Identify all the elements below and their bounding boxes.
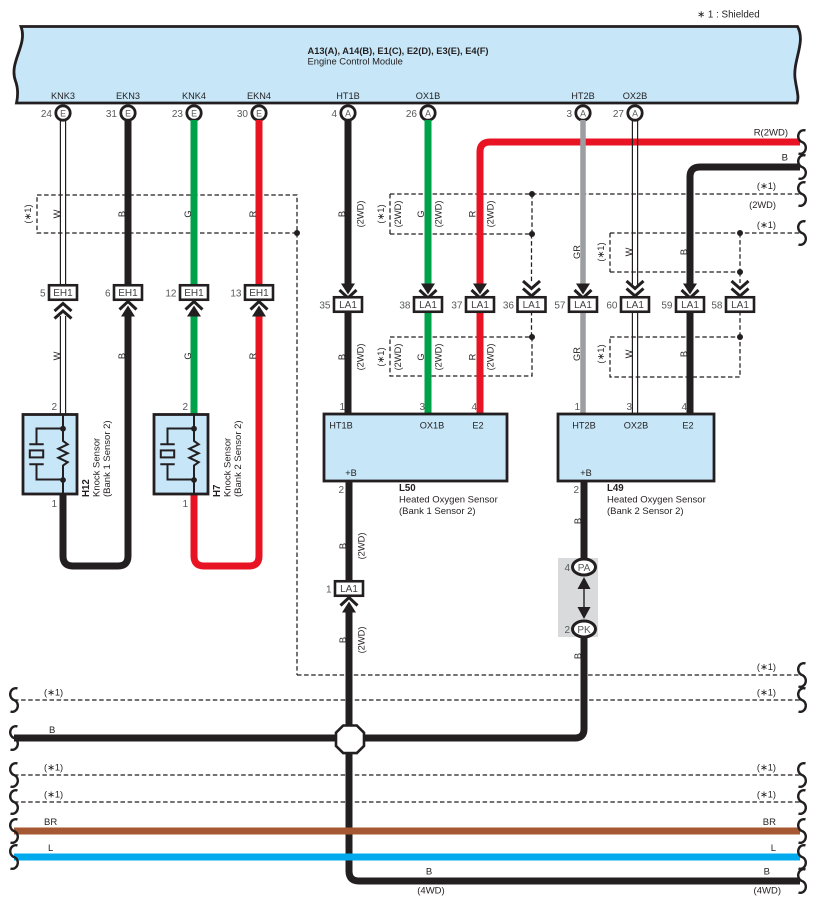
svg-text:OX1B: OX1B bbox=[420, 421, 445, 431]
svg-text:1: 1 bbox=[182, 499, 188, 510]
svg-text:23: 23 bbox=[172, 109, 184, 120]
connector EH1 pin 13 bbox=[245, 285, 273, 300]
svg-text:L: L bbox=[771, 843, 776, 854]
svg-text:+B: +B bbox=[580, 468, 592, 478]
svg-text:W: W bbox=[52, 209, 62, 218]
svg-text:Engine Control Module: Engine Control Module bbox=[308, 56, 403, 67]
knock sensor H12 (Bank 1 Sensor 2) bbox=[23, 415, 77, 495]
svg-text:59: 59 bbox=[661, 300, 673, 311]
wire OX2B white W (thin double) ECM to LA1 60 bbox=[632, 121, 637, 285]
heated oxygen sensor L50 (Bank 1 Sensor 2) bbox=[324, 414, 507, 481]
svg-text:31: 31 bbox=[106, 109, 118, 120]
wire KNK3 shielded white W (thin double) ECM to EH1 bbox=[60, 121, 65, 286]
BR brown bus wire y=830 bbox=[14, 828, 800, 835]
connector LA1 pin 36 bbox=[523, 281, 540, 289]
svg-text:B: B bbox=[426, 867, 432, 878]
svg-text:27: 27 bbox=[613, 109, 625, 120]
connector EH1 pin 5 bbox=[49, 285, 77, 300]
dashed drain from LA1 58 to lower shield box bbox=[739, 311, 741, 337]
svg-text:(∗1): (∗1) bbox=[757, 790, 776, 800]
dashed shield drain wire from knock shield down to (*1) line bbox=[296, 233, 298, 675]
wire B EH1-6 down and left to H12 pin1 bbox=[63, 316, 128, 566]
svg-text:PK: PK bbox=[577, 625, 591, 636]
shield box (*1) around knock sensor wires bbox=[37, 195, 297, 233]
connector LA1 pin 60 bbox=[627, 281, 644, 289]
svg-text:(∗1): (∗1) bbox=[757, 662, 776, 672]
svg-text:GR: GR bbox=[572, 245, 582, 259]
dot top-right lower L50 shield box bbox=[529, 334, 535, 340]
svg-text:E: E bbox=[191, 109, 197, 119]
wire B from right edge to LA1 59 bbox=[690, 167, 800, 284]
wire KNK4 green G ECM to EH1 bbox=[191, 120, 198, 285]
dashed drain from LA1 36 to lower shield box bbox=[531, 311, 533, 337]
svg-text:2: 2 bbox=[564, 625, 570, 636]
dashed (*1) line y=775 full width bbox=[14, 774, 800, 776]
connector PA pin 4 (oval) bbox=[573, 559, 596, 575]
dashed (*1) line y=675 from knock shield drain bbox=[297, 674, 800, 676]
svg-text:4: 4 bbox=[331, 109, 337, 120]
svg-text:GR: GR bbox=[572, 347, 582, 361]
ground bus B wire y=738 bbox=[14, 735, 336, 742]
wire GR LA1-57 to L49 HT2B bbox=[580, 311, 586, 414]
svg-text:B: B bbox=[337, 354, 347, 360]
junction octagon bbox=[336, 726, 364, 754]
svg-text:(∗1): (∗1) bbox=[757, 688, 776, 698]
wire B LA1-59 to L49 E2 bbox=[687, 311, 694, 414]
svg-text:(∗1): (∗1) bbox=[44, 790, 63, 800]
dashed (*1) line y=802 full width bbox=[14, 801, 800, 803]
svg-text:Knock Sensor: Knock Sensor bbox=[223, 438, 234, 497]
svg-text:HT1B: HT1B bbox=[329, 421, 353, 431]
svg-text:2: 2 bbox=[182, 402, 188, 413]
svg-text:30: 30 bbox=[237, 109, 249, 120]
svg-text:E: E bbox=[60, 109, 66, 119]
svg-text:3: 3 bbox=[566, 109, 572, 120]
svg-text:(∗1): (∗1) bbox=[757, 220, 776, 230]
svg-text:KNK4: KNK4 bbox=[182, 91, 206, 101]
svg-text:B: B bbox=[782, 153, 788, 164]
svg-text:HT1B: HT1B bbox=[336, 91, 360, 101]
svg-text:4: 4 bbox=[471, 402, 477, 413]
svg-text:∗ 1 : Shielded: ∗ 1 : Shielded bbox=[697, 10, 760, 21]
wire EKN3 black B ECM to EH1 bbox=[125, 120, 132, 285]
svg-text:13: 13 bbox=[230, 288, 242, 299]
pin 27 (A) OX2B bbox=[628, 106, 642, 120]
svg-text:G: G bbox=[416, 210, 426, 217]
svg-text:B: B bbox=[679, 249, 689, 255]
svg-text:BR: BR bbox=[763, 817, 776, 828]
dashed (*1) line y=700 full width bbox=[14, 699, 800, 701]
svg-text:LA1: LA1 bbox=[419, 300, 437, 311]
svg-text:(2WD): (2WD) bbox=[749, 200, 776, 210]
svg-text:3: 3 bbox=[626, 402, 632, 413]
svg-text:W: W bbox=[624, 247, 634, 256]
svg-text:LA1: LA1 bbox=[731, 300, 749, 311]
L blue bus wire y=857 bbox=[14, 854, 800, 861]
dashed shield drain to LA1 pin36 bbox=[531, 234, 533, 283]
svg-text:12: 12 bbox=[165, 288, 177, 299]
svg-text:(2WD): (2WD) bbox=[357, 627, 367, 654]
svg-text:Heated Oxygen Sensor: Heated Oxygen Sensor bbox=[399, 495, 498, 506]
svg-text:(Bank 2 Sensor 2): (Bank 2 Sensor 2) bbox=[607, 506, 684, 517]
svg-text:B: B bbox=[337, 211, 347, 217]
svg-text:EKN4: EKN4 bbox=[247, 91, 271, 101]
svg-text:EH1: EH1 bbox=[53, 288, 73, 299]
connector LA1 pin 35 bbox=[341, 284, 355, 295]
svg-text:LA1: LA1 bbox=[523, 300, 541, 311]
pin 24 (E) KNK3 bbox=[56, 106, 70, 120]
shield junction dot at (297,233) bbox=[294, 230, 300, 236]
joint arrows between PA and PK bbox=[583, 589, 585, 607]
svg-text:1: 1 bbox=[51, 499, 57, 510]
svg-text:LA1: LA1 bbox=[626, 300, 644, 311]
svg-text:R(2WD): R(2WD) bbox=[754, 128, 788, 139]
dashed shield drain to LA1 pin58 bbox=[739, 272, 741, 283]
lower shield box (*1)(2WD) L50 side bbox=[390, 337, 532, 376]
wire HT2B gray GR ECM to LA1 57 bbox=[580, 120, 586, 284]
svg-text:R: R bbox=[248, 352, 258, 359]
svg-text:H7: H7 bbox=[212, 485, 223, 497]
svg-text:HT2B: HT2B bbox=[572, 421, 596, 431]
svg-text:Knock Sensor: Knock Sensor bbox=[92, 438, 103, 497]
dot top-right lower L49 shield box bbox=[737, 334, 743, 340]
svg-text:A: A bbox=[345, 109, 351, 119]
svg-text:58: 58 bbox=[711, 300, 723, 311]
svg-text:(2WD): (2WD) bbox=[486, 201, 496, 228]
svg-text:(2WD): (2WD) bbox=[356, 201, 366, 228]
svg-text:B: B bbox=[117, 353, 127, 359]
connector EH1 pin 12 bbox=[180, 285, 208, 300]
svg-text:B: B bbox=[49, 725, 55, 736]
dashed (*1) line y=233 bbox=[610, 232, 800, 234]
svg-text:A: A bbox=[632, 109, 638, 119]
knock sensor H7 (Bank 2 Sensor 2) bbox=[154, 415, 208, 495]
svg-text:B: B bbox=[764, 867, 770, 878]
svg-text:LA1: LA1 bbox=[471, 300, 489, 311]
svg-text:KNK3: KNK3 bbox=[51, 91, 75, 101]
svg-text:36: 36 bbox=[503, 300, 515, 311]
svg-text:(2WD): (2WD) bbox=[434, 201, 444, 228]
svg-text:A: A bbox=[425, 109, 431, 119]
svg-text:(2WD): (2WD) bbox=[393, 344, 403, 371]
svg-text:Heated Oxygen Sensor: Heated Oxygen Sensor bbox=[607, 495, 706, 506]
svg-text:LA1: LA1 bbox=[681, 300, 699, 311]
pin 3 (A) HT2B bbox=[576, 106, 590, 120]
wire G(2WD) LA1-38 to L50 OX1B bbox=[425, 311, 432, 414]
svg-text:B: B bbox=[573, 518, 583, 524]
svg-text:4: 4 bbox=[564, 563, 570, 574]
svg-text:H12: H12 bbox=[81, 479, 92, 497]
svg-text:(∗1): (∗1) bbox=[757, 181, 776, 191]
pin 4 (A) HT1B bbox=[341, 106, 355, 120]
svg-text:B: B bbox=[338, 543, 348, 549]
wire HT1B black B(2WD) ECM to LA1 35 bbox=[345, 120, 352, 284]
svg-text:B: B bbox=[338, 637, 348, 643]
svg-text:L50: L50 bbox=[399, 483, 416, 494]
svg-text:24: 24 bbox=[41, 109, 53, 120]
svg-text:G: G bbox=[183, 352, 193, 359]
svg-text:W: W bbox=[624, 349, 634, 358]
svg-text:E2: E2 bbox=[472, 421, 483, 431]
svg-text:35: 35 bbox=[319, 300, 331, 311]
connector EH1 pin 6 bbox=[114, 285, 142, 300]
lower shield box (*1) L49 side bbox=[610, 337, 740, 377]
svg-text:38: 38 bbox=[399, 300, 411, 311]
svg-text:6: 6 bbox=[105, 288, 111, 299]
svg-text:2: 2 bbox=[338, 485, 344, 496]
connector LA1 pin 1 bbox=[335, 581, 363, 596]
svg-text:2: 2 bbox=[51, 402, 57, 413]
shield box dots at x=740 bbox=[737, 230, 743, 236]
svg-text:5: 5 bbox=[40, 288, 46, 299]
svg-text:BR: BR bbox=[44, 817, 57, 828]
svg-text:60: 60 bbox=[606, 300, 618, 311]
wire B(2WD) from L50 +B to LA1 pin1 bbox=[346, 481, 353, 581]
svg-text:W: W bbox=[52, 351, 62, 360]
connector LA1 pin 59 bbox=[683, 284, 697, 295]
wire R(2WD) from right edge to LA1 37 bbox=[480, 142, 800, 284]
svg-text:57: 57 bbox=[554, 300, 566, 311]
svg-text:(Bank 1 Sensor 2): (Bank 1 Sensor 2) bbox=[399, 506, 476, 517]
wire R EH1-13 down and left to H7 pin1 bbox=[194, 316, 259, 566]
svg-text:LA1: LA1 bbox=[340, 584, 358, 595]
svg-text:(∗1): (∗1) bbox=[757, 763, 776, 773]
wire B from PK down to ground bus bbox=[364, 637, 584, 738]
svg-text:EKN3: EKN3 bbox=[116, 91, 140, 101]
svg-text:OX1B: OX1B bbox=[416, 91, 441, 101]
shield box (*1)(2WD) around L50 wires with dashed line to right edge bbox=[390, 194, 532, 234]
svg-text:B: B bbox=[573, 653, 583, 659]
svg-text:1: 1 bbox=[326, 584, 332, 595]
heated oxygen sensor L49 (Bank 2 Sensor 2) bbox=[558, 414, 714, 481]
svg-text:EH1: EH1 bbox=[118, 288, 138, 299]
svg-text:OX2B: OX2B bbox=[623, 91, 648, 101]
svg-text:(∗1): (∗1) bbox=[596, 344, 606, 363]
svg-text:(∗1): (∗1) bbox=[596, 242, 606, 261]
svg-text:3: 3 bbox=[419, 402, 425, 413]
svg-text:(∗1): (∗1) bbox=[44, 688, 63, 698]
pin 26 (A) OX1B bbox=[421, 106, 435, 120]
svg-text:37: 37 bbox=[451, 300, 463, 311]
pin 30 (E) EKN4 bbox=[252, 106, 266, 120]
svg-text:R: R bbox=[248, 210, 258, 217]
svg-text:1: 1 bbox=[574, 402, 580, 413]
svg-text:(∗1): (∗1) bbox=[376, 204, 386, 223]
wire W EH1-5 to H12 pin2 (thin double) bbox=[60, 316, 65, 415]
svg-text:L: L bbox=[48, 843, 53, 854]
svg-text:R: R bbox=[468, 210, 478, 217]
svg-text:1: 1 bbox=[339, 402, 345, 413]
svg-text:E: E bbox=[256, 109, 262, 119]
svg-text:B: B bbox=[679, 351, 689, 357]
connector PK pin 2 (oval) bbox=[573, 621, 596, 637]
svg-text:B: B bbox=[117, 211, 127, 217]
svg-text:E: E bbox=[125, 109, 131, 119]
wire G EH1-12 to H7 pin2 bbox=[191, 316, 198, 415]
svg-text:A13(A), A14(B), E1(C), E2(D),: A13(A), A14(B), E1(C), E2(D), E3(E), E4(… bbox=[308, 46, 489, 56]
gray background of PA-PK joint bbox=[558, 558, 598, 637]
svg-text:(2WD): (2WD) bbox=[393, 201, 403, 228]
svg-text:(2WD): (2WD) bbox=[357, 533, 367, 560]
svg-text:4: 4 bbox=[681, 402, 687, 413]
svg-text:+B: +B bbox=[345, 468, 357, 478]
svg-text:LA1: LA1 bbox=[339, 300, 357, 311]
wire W LA1-60 to L49 OX2B (thin double) bbox=[632, 312, 637, 414]
svg-text:HT2B: HT2B bbox=[571, 91, 595, 101]
ECM module A13/A14/E1-E4 band bbox=[14, 27, 800, 104]
svg-text:(∗1): (∗1) bbox=[23, 204, 33, 223]
svg-text:(2WD): (2WD) bbox=[434, 344, 444, 371]
svg-text:LA1: LA1 bbox=[574, 300, 592, 311]
svg-text:(∗1): (∗1) bbox=[44, 763, 63, 773]
svg-text:(4WD): (4WD) bbox=[754, 886, 781, 897]
svg-text:(Bank 1 Sensor 2): (Bank 1 Sensor 2) bbox=[102, 420, 113, 497]
svg-text:PA: PA bbox=[578, 563, 591, 574]
svg-text:(2WD): (2WD) bbox=[486, 344, 496, 371]
wire B(2WD) from LA1 pin1 to junction and bottom B(4WD) line bbox=[349, 612, 800, 881]
svg-text:L49: L49 bbox=[607, 483, 624, 494]
wire R(2WD) LA1-37 to L50 E2 bbox=[477, 311, 484, 414]
wire OX1B green G(2WD) ECM to LA1 38 bbox=[425, 120, 432, 284]
svg-text:E2: E2 bbox=[682, 421, 693, 431]
svg-text:EH1: EH1 bbox=[184, 288, 204, 299]
svg-text:G: G bbox=[183, 210, 193, 217]
svg-text:26: 26 bbox=[406, 109, 418, 120]
wire EKN4 red R ECM to EH1 bbox=[256, 120, 263, 285]
svg-text:A: A bbox=[580, 109, 586, 119]
svg-text:(2WD): (2WD) bbox=[356, 344, 366, 371]
dashed (*1)(2WD) line y=194 bbox=[390, 193, 800, 195]
svg-text:(∗1): (∗1) bbox=[376, 347, 386, 366]
pin 23 (E) KNK4 bbox=[187, 106, 201, 120]
svg-text:(4WD): (4WD) bbox=[417, 886, 444, 897]
connector LA1 pin 37 bbox=[473, 284, 487, 295]
svg-text:2: 2 bbox=[573, 485, 579, 496]
connector LA1 pin 38 bbox=[421, 284, 435, 295]
shield box dots at x=532 bbox=[529, 191, 535, 197]
svg-text:OX2B: OX2B bbox=[624, 421, 649, 431]
wire B(2WD) LA1-35 to L50 HT1B bbox=[345, 311, 352, 414]
svg-text:G: G bbox=[416, 353, 426, 360]
svg-text:(Bank 2 Sensor 2): (Bank 2 Sensor 2) bbox=[233, 420, 244, 497]
svg-text:R: R bbox=[468, 353, 478, 360]
connector LA1 pin 57 bbox=[576, 284, 590, 295]
shield box (*1) around L49 wires upper bbox=[610, 233, 740, 272]
wire B from L49 +B to connector PA bbox=[581, 481, 588, 560]
connector LA1 pin 58 bbox=[732, 281, 749, 289]
svg-text:EH1: EH1 bbox=[249, 288, 269, 299]
pin 31 (E) EKN3 bbox=[121, 106, 135, 120]
